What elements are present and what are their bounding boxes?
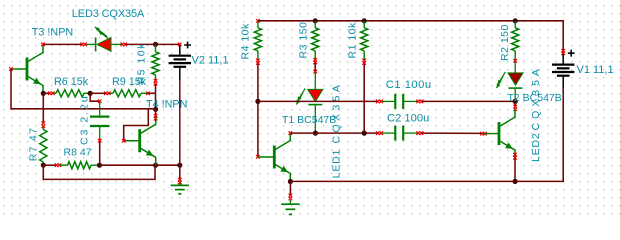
transistor T4	[124, 116, 156, 165]
pin markers C2 right	[416, 131, 423, 135]
ground G2	[171, 181, 189, 193]
wire R1 to row B	[363, 63, 365, 133]
resistor R5	[152, 45, 159, 80]
pin markers R5 bottom	[154, 79, 158, 85]
junction node T2 emitter rail	[513, 179, 518, 184]
pin marker C3 bottom	[98, 139, 102, 143]
wire T3 base net	[11, 69, 156, 109]
svg-text:C1 100u: C1 100u	[386, 79, 432, 91]
label T1	[282, 114, 336, 126]
transistor T3	[11, 45, 43, 94]
svg-text:CQX35A: CQX35A	[331, 82, 343, 144]
pin markers ground G2	[178, 178, 182, 184]
LED D2 (LED2)	[497, 61, 524, 100]
wire V2 minus to ground	[179, 165, 181, 179]
svg-text:V1 11,1: V1 11,1	[577, 64, 614, 76]
ground G1	[281, 200, 299, 214]
junction node R1 bottom	[362, 131, 367, 136]
wire T2 emitter to rail	[514, 158, 516, 181]
label LED3 value	[72, 8, 145, 20]
pin marker T4 base	[122, 139, 126, 143]
pin marker LED2 anode	[513, 59, 517, 63]
transistor T2	[483, 109, 515, 158]
pin markers R3 bottom	[313, 58, 317, 64]
wire C-net to T4 base	[124, 109, 149, 141]
pin markers T2 collector	[513, 105, 517, 111]
label T3	[32, 27, 73, 39]
pin markers T2 emitter	[513, 153, 517, 160]
label C1	[386, 79, 432, 91]
junction node R3 top	[313, 18, 318, 23]
junction node R2 top	[513, 18, 518, 23]
label R9	[112, 76, 147, 88]
resistor R7	[40, 126, 47, 166]
resistor R9	[109, 90, 148, 97]
wire R7 to R8	[43, 164, 56, 166]
svg-text:R2 150: R2 150	[499, 24, 511, 61]
label T4	[146, 98, 187, 110]
battery V2	[169, 56, 191, 67]
svg-text:C2 100u: C2 100u	[387, 112, 429, 124]
label R7	[27, 127, 39, 162]
resistor R6	[53, 90, 90, 97]
wire LED2 cathode to T2 collector	[514, 101, 516, 106]
wire V2 minus lead	[179, 68, 181, 165]
transistor T1	[258, 133, 290, 182]
junction node R1 top	[362, 18, 367, 23]
pin markers LED3 anode	[121, 43, 127, 47]
svg-text:R4 10k: R4 10k	[240, 23, 252, 60]
wire R9 to R5 wire	[148, 92, 156, 94]
wire R6 junction to C3 top	[90, 93, 99, 101]
svg-text:R3 150: R3 150	[297, 22, 309, 59]
svg-text:C3 2.2u: C3 2.2u	[78, 94, 90, 145]
pin markers T2 base	[480, 132, 487, 136]
wire T3 emitter to R7	[42, 93, 44, 122]
pin markers ground G1	[289, 194, 293, 201]
junction node top of R5	[153, 42, 158, 47]
wire C3 bottom to rail	[99, 141, 101, 165]
pin markers R9 left	[104, 92, 110, 96]
label R4	[240, 23, 252, 60]
svg-text:R1 10k: R1 10k	[346, 22, 358, 59]
junction node T4 emitter	[153, 163, 158, 168]
pin marker T1 base	[256, 155, 260, 159]
wire T3 collector to LED3	[43, 43, 82, 45]
pin marker T1 collector	[289, 131, 293, 135]
wire R3 to LED1	[314, 63, 316, 71]
pin markers R6 left	[48, 92, 55, 96]
wire T1 emitter to ground	[289, 182, 291, 196]
wire R8 to T4 emitter	[100, 164, 156, 166]
pin markers R4 bottom	[256, 59, 260, 65]
junction node T3 emitter	[41, 91, 46, 96]
pin marker V2 plus	[178, 43, 182, 47]
pin markers R7 top	[42, 122, 46, 129]
svg-text:T1 BC547B: T1 BC547B	[282, 114, 336, 126]
pin marker R9 right	[146, 92, 150, 96]
wire base T1 coupling row	[258, 100, 378, 102]
svg-text:R6 15k: R6 15k	[54, 76, 89, 88]
resistor R3	[312, 21, 319, 60]
battery V1	[552, 65, 574, 76]
pin marker T3 collector	[41, 43, 45, 47]
label R1	[346, 22, 358, 59]
LED D3 (LED3)	[85, 27, 122, 51]
wire T4 emitter to V2 minus	[156, 164, 180, 166]
pin markers R1 bottom	[362, 59, 366, 65]
resistor R4	[254, 21, 261, 60]
wire node B1 to T4 collector	[155, 109, 157, 115]
pin markers R8 left	[55, 163, 62, 167]
junction node R7-R8	[41, 163, 46, 168]
svg-text:T2 BC547B: T2 BC547B	[508, 92, 562, 104]
wire R4 to T1 base	[257, 63, 259, 156]
resistor R1	[361, 21, 368, 60]
wire R6 junction to R9	[90, 92, 106, 94]
pin marker C3 top	[98, 99, 102, 103]
resistor R8	[60, 162, 100, 169]
wire LED3 to V2 plus	[125, 43, 180, 45]
wire R5 to node B1	[155, 84, 157, 109]
svg-text:LED1: LED1	[331, 149, 343, 178]
capacitor C2	[382, 126, 418, 141]
wire T1 collector row	[291, 132, 378, 134]
svg-text:T4 !NPN: T4 !NPN	[146, 98, 187, 110]
label V1	[577, 64, 614, 76]
pin marker R4 top	[256, 19, 260, 23]
wire V2 plus lead	[179, 45, 181, 55]
pin markers C1 right	[416, 100, 423, 104]
LED D1 (LED1)	[296, 72, 323, 133]
label R2	[499, 24, 511, 61]
junction node B1	[153, 107, 158, 112]
label LED1	[331, 82, 343, 179]
svg-text:R9 15k: R9 15k	[112, 76, 147, 88]
wire C1 to T2 collector node	[422, 100, 515, 102]
label R6	[54, 76, 89, 88]
capacitor C3	[90, 102, 110, 140]
junction node R4 wire / C1	[255, 99, 260, 104]
label V2	[192, 55, 229, 67]
pin marker LED1 anode	[313, 70, 317, 74]
pin markers LED3 cathode	[80, 43, 86, 47]
label R3	[297, 22, 309, 59]
label T2	[508, 92, 562, 104]
plus sign V1	[568, 50, 575, 57]
wire T3 emitter to R6	[43, 92, 49, 94]
label C3	[78, 94, 90, 145]
wire C2 to T2 base	[422, 132, 482, 134]
svg-text:LED3 CQX35A: LED3 CQX35A	[72, 8, 145, 20]
label LED2	[530, 65, 542, 162]
pin marker T3 base	[9, 67, 13, 71]
junction node V2 minus	[177, 163, 182, 168]
svg-text:R8 47: R8 47	[64, 147, 92, 159]
capacitor C1	[382, 94, 418, 109]
pin markers C2 left	[376, 131, 383, 135]
plus sign V2	[184, 42, 191, 49]
wire V1 plus lead	[562, 54, 564, 64]
junction node R8-C3	[97, 163, 102, 168]
junction node T1 emitter	[288, 179, 293, 184]
svg-text:R7 47: R7 47	[27, 127, 39, 162]
label C2	[387, 112, 429, 124]
junction node LED2 cathode	[513, 99, 518, 104]
svg-text:LED2: LED2	[530, 133, 542, 162]
wire bottom loop	[43, 165, 155, 179]
pin markers V1 plus	[561, 49, 565, 55]
pin markers C1 left	[376, 100, 383, 104]
svg-text:T3 !NPN: T3 !NPN	[32, 27, 73, 39]
label R8	[64, 147, 92, 159]
wire top rail	[258, 21, 563, 51]
pin markers T4 collector	[154, 114, 158, 121]
junction node LED1 cathode	[313, 131, 318, 136]
junction node R6-C3	[88, 91, 93, 96]
wire bottom rail right	[290, 77, 563, 182]
label R5	[136, 42, 148, 84]
svg-text:V2 11,1: V2 11,1	[192, 55, 229, 67]
resistor R2	[512, 21, 519, 60]
